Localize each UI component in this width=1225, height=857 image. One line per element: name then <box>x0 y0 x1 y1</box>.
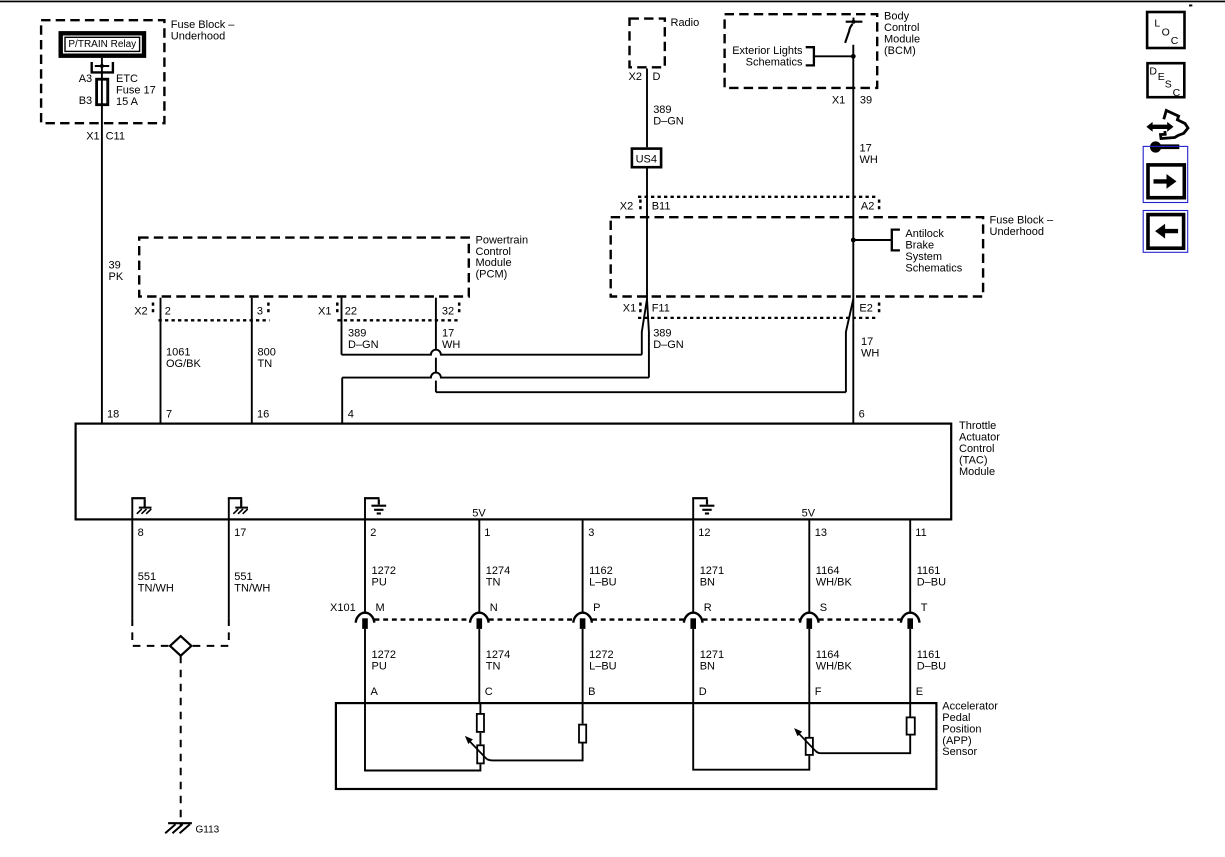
svg-text:C11: C11 <box>106 131 125 143</box>
earth ground symbol at TAC pin 12 <box>692 498 694 520</box>
wire PCM 2 to TAC 7 (1061 OG/BK) <box>160 298 162 423</box>
wire 17 WH horizontal PCM32 to E2 <box>436 391 846 393</box>
svg-text:Schematics: Schematics <box>746 57 803 69</box>
svg-text:Module: Module <box>959 466 995 478</box>
resistor R2 (APP1 wiper lead) <box>579 725 586 743</box>
svg-text:L–BU: L–BU <box>589 660 617 672</box>
inline connector X101 cavity N <box>470 613 489 623</box>
pot wiper arrow APP1 <box>469 741 487 760</box>
svg-text:M: M <box>376 602 385 614</box>
svg-text:TN: TN <box>486 576 501 588</box>
svg-text:15 A: 15 A <box>116 96 139 108</box>
wire TAC to X101 pin R <box>692 521 694 614</box>
svg-text:S: S <box>820 602 827 614</box>
svg-text:Module: Module <box>476 257 512 269</box>
svg-text:Fuse 17: Fuse 17 <box>116 85 156 97</box>
relay K1 P/TRAIN Relay box <box>61 33 144 55</box>
fuse F17 ETC body <box>96 79 108 105</box>
svg-text:1162: 1162 <box>589 565 613 577</box>
wire D to pot bottom <box>693 702 809 770</box>
svg-text:G113: G113 <box>196 824 220 835</box>
svg-text:R: R <box>704 602 712 614</box>
wire TAC pin 4 riser <box>341 378 343 423</box>
svg-text:X2: X2 <box>629 71 642 83</box>
svg-text:BN: BN <box>700 660 715 672</box>
dashed wire pin17 to splice <box>192 618 228 646</box>
dashed wire pin8 to splice <box>132 618 169 646</box>
svg-text:S: S <box>1165 79 1172 91</box>
svg-text:1061: 1061 <box>166 346 190 358</box>
wire PCM 22 stub down <box>341 298 343 355</box>
svg-text:B: B <box>588 686 595 698</box>
wire PCM 3 to TAC 16 (800 TN) <box>251 298 253 423</box>
junction dot antilock tap <box>851 238 856 243</box>
svg-text:(APP): (APP) <box>942 735 971 747</box>
wire A to pot bottom <box>365 702 480 771</box>
svg-text:Accelerator: Accelerator <box>942 701 998 713</box>
wire C into resistor <box>479 702 481 714</box>
PCM connector dotted bottom (X2 group) <box>159 319 270 321</box>
svg-text:N: N <box>490 602 498 614</box>
bracket to antilock schematics <box>892 230 900 251</box>
wire PCM 32 down (17 WH) <box>435 298 437 351</box>
svg-text:800: 800 <box>258 346 276 358</box>
svg-text:C: C <box>1171 35 1179 47</box>
radio dashed box <box>630 19 665 68</box>
svg-text:Module: Module <box>884 33 920 45</box>
wire X101 to APP C <box>478 629 480 702</box>
svg-text:551: 551 <box>234 571 252 583</box>
svg-text:1271: 1271 <box>700 565 724 577</box>
svg-text:3: 3 <box>257 305 263 317</box>
svg-text:ETC: ETC <box>116 73 138 85</box>
svg-text:11: 11 <box>915 527 926 539</box>
svg-text:(BCM): (BCM) <box>884 45 916 57</box>
svg-text:D–GN: D–GN <box>653 339 684 351</box>
svg-text:Underhood: Underhood <box>990 226 1044 238</box>
svg-text:Radio: Radio <box>671 17 700 29</box>
inline connector X101 cavity M <box>356 613 375 623</box>
svg-text:X1: X1 <box>832 95 845 107</box>
junction dot exterior lights tap <box>851 54 856 59</box>
pot element APP1 <box>477 745 484 763</box>
svg-text:12: 12 <box>698 527 710 539</box>
svg-text:13: 13 <box>815 527 827 539</box>
svg-text:551: 551 <box>138 571 156 583</box>
pot element APP2 <box>806 738 813 755</box>
svg-text:5V: 5V <box>802 508 816 520</box>
svg-text:5V: 5V <box>472 508 486 520</box>
svg-text:Throttle: Throttle <box>959 420 996 432</box>
wire X101 to APP B <box>582 629 584 702</box>
svg-text:F: F <box>815 686 822 698</box>
pot wiper arrow APP2 <box>798 733 816 751</box>
earth ground symbol at TAC pin 2 <box>364 498 366 520</box>
wire resistor to pot element <box>479 733 481 745</box>
svg-text:D–BU: D–BU <box>917 660 946 672</box>
icon hand double arrow <box>1146 122 1173 132</box>
svg-text:P/TRAIN Relay: P/TRAIN Relay <box>68 39 136 50</box>
svg-text:1274: 1274 <box>486 565 510 577</box>
wire F11 fork right branch <box>647 299 649 378</box>
svg-text:6: 6 <box>859 408 865 420</box>
X101 connector dashed line <box>375 618 901 620</box>
fuse block underhood (left) dashed box <box>41 20 164 123</box>
icon DESC button <box>1148 63 1185 97</box>
svg-text:Position: Position <box>942 723 981 735</box>
wire BCM 39 down to E2 fork <box>852 45 854 299</box>
svg-text:1164: 1164 <box>816 649 840 661</box>
svg-text:39: 39 <box>860 95 872 107</box>
wire B into resistor <box>582 702 584 724</box>
svg-text:WH/BK: WH/BK <box>816 660 853 672</box>
svg-text:39: 39 <box>109 259 121 271</box>
PCM connector ticks <box>152 303 155 316</box>
svg-text:TN: TN <box>486 660 501 672</box>
resistor R3 (APP2 wiper lead) <box>907 717 915 734</box>
svg-text:17: 17 <box>234 527 246 539</box>
tick left of F11 <box>639 303 642 316</box>
tick right of A2 <box>878 200 881 213</box>
svg-text:A2: A2 <box>861 201 874 213</box>
svg-text:C: C <box>485 686 493 698</box>
wire TAC to X101 pin M <box>364 521 366 614</box>
svg-text:1164: 1164 <box>816 565 840 577</box>
svg-text:A3: A3 <box>79 73 92 85</box>
svg-text:2: 2 <box>165 305 171 317</box>
fuse block underhood (right) dashed box <box>611 217 983 296</box>
svg-text:17: 17 <box>861 336 873 348</box>
svg-text:TN/WH: TN/WH <box>138 582 174 594</box>
svg-text:1161: 1161 <box>917 649 941 661</box>
svg-text:A: A <box>371 686 379 698</box>
wire relay to fuse to C11 to TAC pin 18 <box>101 58 103 423</box>
svg-text:D: D <box>699 686 707 698</box>
svg-text:389: 389 <box>653 104 671 116</box>
svg-text:TN/WH: TN/WH <box>234 582 270 594</box>
svg-text:Underhood: Underhood <box>171 30 225 42</box>
svg-text:18: 18 <box>107 408 119 420</box>
svg-text:1272: 1272 <box>589 649 613 661</box>
wire exterior lights tap <box>814 55 853 57</box>
svg-text:X101: X101 <box>330 602 356 614</box>
wire TAC to X101 pin S <box>808 521 810 614</box>
wire TAC 8 down (551 TN/WH) <box>131 521 133 619</box>
switch blade (open) <box>845 24 853 43</box>
wire F11 fork left branch <box>642 299 647 355</box>
svg-text:1272: 1272 <box>372 565 396 577</box>
svg-text:Brake: Brake <box>905 239 934 251</box>
wire E2 fork left branch <box>846 299 853 392</box>
svg-text:D–BU: D–BU <box>917 576 946 588</box>
svg-text:8: 8 <box>138 527 144 539</box>
svg-text:BN: BN <box>700 576 715 588</box>
svg-text:16: 16 <box>257 408 269 420</box>
wire X101 to APP E <box>909 629 911 702</box>
svg-text:PK: PK <box>109 271 124 283</box>
svg-text:4: 4 <box>348 408 354 420</box>
connector row line (F11/E2) <box>638 317 877 319</box>
wire antilock tap <box>853 239 892 241</box>
svg-text:(PCM): (PCM) <box>476 269 508 281</box>
powertrain control module dashed box <box>139 238 469 297</box>
svg-text:Fuse Block –: Fuse Block – <box>990 215 1054 227</box>
icon prev page button (blue) <box>1143 211 1188 253</box>
tick left of B11 <box>639 200 642 213</box>
svg-text:X2: X2 <box>620 201 633 213</box>
wire F into pot element <box>808 702 810 737</box>
svg-text:Pedal: Pedal <box>942 712 970 724</box>
svg-text:1161: 1161 <box>917 565 941 577</box>
icon pen dot and bar <box>1150 141 1161 152</box>
wire 389 D-GN horizontal F11 to TAC4 (hop over 17WH) <box>342 373 649 378</box>
svg-text:7: 7 <box>166 408 172 420</box>
svg-text:TN: TN <box>258 358 273 370</box>
icon LOC button <box>1147 12 1184 48</box>
inline connector X101 cavity P <box>573 613 592 623</box>
wire TAC to X101 pin P <box>582 521 584 614</box>
svg-text:WH: WH <box>860 154 878 166</box>
switch contact bar in BCM <box>846 21 863 23</box>
svg-text:Antilock: Antilock <box>905 228 944 240</box>
small mark top right <box>1189 5 1192 7</box>
svg-text:389: 389 <box>653 328 671 340</box>
fuse US4 box <box>632 149 661 168</box>
svg-text:22: 22 <box>345 305 357 317</box>
svg-text:Control: Control <box>884 22 919 34</box>
wire TAC to X101 pin N <box>478 521 480 614</box>
svg-text:US4: US4 <box>636 153 657 165</box>
svg-text:WH/BK: WH/BK <box>816 576 853 588</box>
inline connector X101 cavity T <box>901 613 920 623</box>
svg-text:L: L <box>1154 17 1160 29</box>
wire 389 D-GN horizontal PCM22 to F11 (hop over 17WH) <box>342 350 642 355</box>
svg-text:Exterior Lights: Exterior Lights <box>732 45 803 57</box>
svg-text:L–BU: L–BU <box>589 576 617 588</box>
svg-text:D–GN: D–GN <box>348 339 379 351</box>
wire wiper to B resistor <box>487 744 583 761</box>
svg-text:B11: B11 <box>652 201 671 213</box>
svg-text:1: 1 <box>484 527 490 539</box>
wire X101 to APP D <box>692 629 694 702</box>
svg-text:X1: X1 <box>623 302 636 314</box>
svg-text:3: 3 <box>588 527 594 539</box>
page top border line <box>0 1 1225 3</box>
resistor R1 (APP1 fixed) <box>477 714 484 732</box>
svg-text:Control: Control <box>476 246 511 258</box>
icon hand pan outline <box>1161 111 1189 139</box>
splice diamond S1 <box>170 636 191 656</box>
svg-text:17: 17 <box>860 143 872 155</box>
svg-text:E: E <box>916 686 923 698</box>
body control module dashed box <box>725 14 878 88</box>
chassis ground symbol at TAC pin 8 <box>131 498 133 520</box>
svg-text:X1: X1 <box>86 131 99 143</box>
inline connector X101 cavity S <box>800 613 819 623</box>
svg-text:E: E <box>1158 71 1165 83</box>
svg-text:P: P <box>593 602 600 614</box>
icon next page button (blue) <box>1143 146 1188 202</box>
svg-text:O: O <box>1162 27 1170 39</box>
wire TAC 17 down (551 TN/WH) <box>228 521 230 619</box>
svg-text:T: T <box>921 602 928 614</box>
svg-text:WH: WH <box>442 339 460 351</box>
svg-text:17: 17 <box>442 328 454 340</box>
tick right of E2 <box>878 303 881 316</box>
wire wiper to E resistor <box>816 736 911 754</box>
svg-text:1272: 1272 <box>372 649 396 661</box>
svg-text:OG/BK: OG/BK <box>166 358 202 370</box>
ground G113 symbol <box>168 822 192 824</box>
wire TAC to X101 pin T <box>909 521 911 614</box>
svg-text:C: C <box>1173 87 1181 99</box>
wire E2 down to TAC pin 6 <box>852 299 854 423</box>
svg-text:Actuator: Actuator <box>959 432 1000 444</box>
svg-text:WH: WH <box>861 348 879 360</box>
svg-text:X2: X2 <box>134 305 147 317</box>
PCM connector dotted bottom (X1 group) <box>337 319 460 321</box>
svg-text:2: 2 <box>370 527 376 539</box>
svg-text:Powertrain: Powertrain <box>476 234 529 246</box>
dashed wire splice to G113 <box>180 656 182 826</box>
svg-text:(TAC): (TAC) <box>959 454 988 466</box>
svg-text:D–GN: D–GN <box>653 116 684 128</box>
svg-text:1271: 1271 <box>700 649 724 661</box>
wire X101 to APP A <box>364 629 366 702</box>
svg-text:PU: PU <box>372 576 387 588</box>
wire radio to US4 <box>646 69 648 148</box>
svg-text:Body: Body <box>884 11 910 23</box>
svg-text:X1: X1 <box>318 305 331 317</box>
svg-text:D: D <box>653 71 661 83</box>
wire US4 to F11 fork <box>646 169 648 300</box>
connector row line (B11/A2) <box>638 196 877 198</box>
inline connector X101 cavity R <box>684 613 703 623</box>
svg-text:Fuse Block –: Fuse Block – <box>171 19 235 31</box>
svg-text:389: 389 <box>348 328 366 340</box>
relay output terminal bracket <box>92 62 113 72</box>
bracket to exterior lights <box>806 47 814 65</box>
TAC module box <box>76 424 952 520</box>
svg-text:B3: B3 <box>79 95 92 107</box>
svg-text:1274: 1274 <box>486 649 510 661</box>
chassis ground symbol at TAC pin 17 <box>228 498 230 520</box>
svg-text:32: 32 <box>442 305 454 317</box>
svg-text:PU: PU <box>372 660 387 672</box>
wire X101 to APP F <box>808 629 810 702</box>
svg-text:F11: F11 <box>652 302 670 314</box>
svg-text:E2: E2 <box>859 302 872 314</box>
wire E into resistor <box>909 702 911 717</box>
svg-text:Sensor: Sensor <box>942 746 977 758</box>
svg-text:D: D <box>1149 66 1157 78</box>
svg-text:Control: Control <box>959 443 994 455</box>
svg-text:Schematics: Schematics <box>905 262 962 274</box>
APP sensor box <box>336 703 937 789</box>
svg-text:System: System <box>905 251 942 263</box>
